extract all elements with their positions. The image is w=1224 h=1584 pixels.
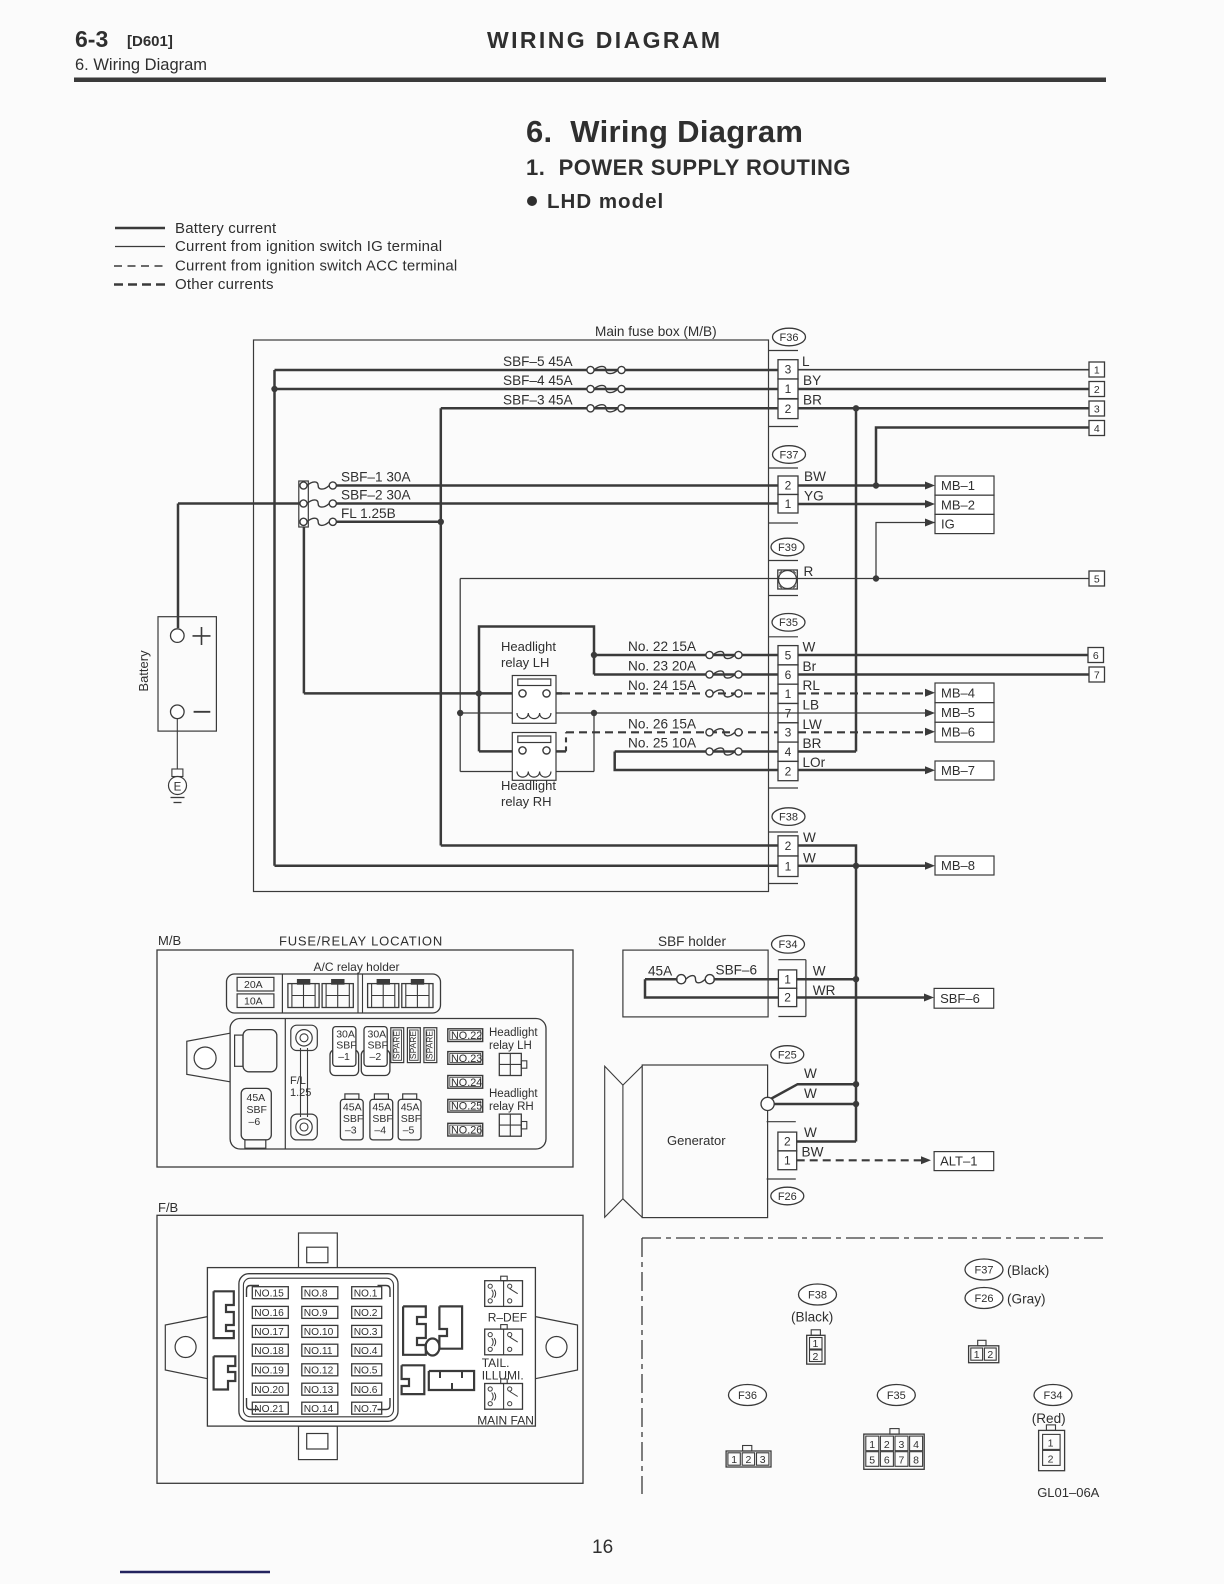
- svg-text:–2: –2: [370, 1051, 382, 1063]
- svg-text:4: 4: [1094, 423, 1100, 435]
- svg-text:F25: F25: [778, 1049, 797, 1061]
- svg-text:A/C relay holder: A/C relay holder: [314, 960, 400, 974]
- svg-text:SPARE: SPARE: [391, 1031, 401, 1060]
- svg-text:45A: 45A: [401, 1102, 420, 1114]
- svg-text:W: W: [803, 640, 816, 655]
- svg-text:W: W: [813, 964, 826, 979]
- svg-text:(Black): (Black): [791, 1310, 833, 1325]
- svg-text:2: 2: [784, 991, 791, 1005]
- svg-text:NO.25: NO.25: [451, 1101, 482, 1113]
- svg-text:GL01–06A: GL01–06A: [1037, 1485, 1099, 1500]
- svg-text:NO.13: NO.13: [304, 1385, 334, 1396]
- svg-text:BW: BW: [804, 469, 826, 484]
- svg-text:BR: BR: [803, 393, 822, 408]
- svg-text:W: W: [803, 851, 816, 866]
- svg-text:NO.3: NO.3: [354, 1327, 378, 1338]
- svg-text:RL: RL: [803, 678, 821, 693]
- svg-text:MAIN FAN: MAIN FAN: [477, 1414, 534, 1428]
- svg-text:NO.7: NO.7: [354, 1404, 378, 1415]
- svg-text:MB–2: MB–2: [941, 497, 975, 512]
- svg-text:SBF: SBF: [372, 1113, 392, 1125]
- svg-text:No. 25 10A: No. 25 10A: [628, 736, 697, 751]
- svg-text:SBF: SBF: [368, 1040, 388, 1052]
- svg-text:2: 2: [813, 1351, 819, 1363]
- svg-text:M/B: M/B: [158, 933, 181, 948]
- svg-text:F35: F35: [779, 617, 798, 629]
- svg-text:3: 3: [785, 363, 792, 377]
- svg-text:5: 5: [1094, 574, 1100, 586]
- svg-text:1. POWER SUPPLY ROUTING: 1. POWER SUPPLY ROUTING: [526, 155, 851, 180]
- svg-text:Headlight: Headlight: [501, 778, 556, 793]
- svg-text:MB–8: MB–8: [941, 858, 975, 873]
- svg-text:W: W: [803, 830, 816, 845]
- svg-text:IG: IG: [941, 517, 955, 532]
- svg-text:Battery: Battery: [136, 650, 151, 692]
- svg-text:W: W: [804, 1125, 817, 1140]
- svg-text:1: 1: [785, 687, 792, 701]
- svg-text:(Black): (Black): [1007, 1263, 1049, 1278]
- svg-text:LW: LW: [803, 717, 823, 732]
- svg-text:NO.24: NO.24: [451, 1077, 482, 1089]
- svg-text:F26: F26: [778, 1191, 797, 1203]
- svg-text:NO.17: NO.17: [254, 1327, 284, 1338]
- svg-text:1: 1: [785, 497, 792, 511]
- svg-text:(Red): (Red): [1032, 1411, 1066, 1426]
- svg-text:LOr: LOr: [803, 755, 826, 770]
- svg-text:No. 22 15A: No. 22 15A: [628, 639, 697, 654]
- svg-text:6. Wiring Diagram: 6. Wiring Diagram: [75, 56, 207, 74]
- svg-text:No. 23 20A: No. 23 20A: [628, 659, 697, 674]
- svg-text:NO.18: NO.18: [254, 1346, 284, 1357]
- svg-text:(Gray): (Gray): [1007, 1292, 1046, 1307]
- svg-text:NO.5: NO.5: [354, 1366, 378, 1377]
- svg-text:3: 3: [785, 726, 792, 740]
- svg-text:LB: LB: [803, 698, 820, 713]
- svg-text:FL 1.25B: FL 1.25B: [341, 506, 396, 521]
- svg-text:SBF–5 45A: SBF–5 45A: [503, 354, 573, 369]
- svg-text:6. Wiring Diagram: 6. Wiring Diagram: [526, 114, 803, 149]
- svg-text:45A: 45A: [247, 1092, 266, 1104]
- svg-text:–4: –4: [374, 1125, 386, 1137]
- svg-text:F/L: F/L: [290, 1075, 306, 1087]
- svg-text:F36: F36: [780, 332, 799, 344]
- svg-text:F39: F39: [778, 542, 797, 554]
- svg-text:2: 2: [785, 839, 792, 853]
- svg-text:W: W: [804, 1066, 817, 1081]
- svg-text:45A: 45A: [343, 1102, 362, 1114]
- svg-text:SBF–1 30A: SBF–1 30A: [341, 470, 411, 485]
- svg-text:NO.20: NO.20: [254, 1385, 284, 1396]
- svg-text:5: 5: [785, 648, 792, 662]
- svg-text:2: 2: [884, 1439, 890, 1451]
- svg-text:Other currents: Other currents: [175, 276, 274, 293]
- svg-text:F34: F34: [1044, 1390, 1063, 1402]
- svg-text:–1: –1: [338, 1051, 350, 1063]
- svg-text:MB–6: MB–6: [941, 725, 975, 740]
- svg-text:5: 5: [869, 1455, 875, 1467]
- svg-text:WR: WR: [813, 983, 836, 998]
- svg-text:4: 4: [913, 1439, 919, 1451]
- svg-text:Current from ignition switch I: Current from ignition switch IG terminal: [175, 238, 442, 255]
- svg-text:NO.11: NO.11: [304, 1346, 333, 1357]
- svg-text:E: E: [174, 782, 182, 794]
- svg-text:SBF–3 45A: SBF–3 45A: [503, 393, 573, 408]
- svg-text:NO.10: NO.10: [304, 1327, 334, 1338]
- svg-text:2: 2: [785, 402, 792, 416]
- svg-text:SBF–2 30A: SBF–2 30A: [341, 488, 411, 503]
- svg-text:SPARE: SPARE: [425, 1031, 435, 1060]
- svg-text:2: 2: [785, 478, 792, 492]
- svg-text:F38: F38: [779, 811, 798, 823]
- svg-text:W: W: [804, 1086, 817, 1101]
- svg-text:20A: 20A: [244, 979, 263, 991]
- svg-text:Br: Br: [803, 659, 817, 674]
- svg-text:LHD model: LHD model: [547, 190, 664, 213]
- svg-text:R–DEF: R–DEF: [488, 1311, 527, 1325]
- svg-text:NO.1: NO.1: [354, 1288, 378, 1299]
- svg-text:relay LH: relay LH: [489, 1040, 532, 1052]
- svg-text:Main fuse box (M/B): Main fuse box (M/B): [595, 324, 717, 339]
- svg-text:2: 2: [1094, 384, 1100, 396]
- svg-text:FUSE/RELAY LOCATION: FUSE/RELAY LOCATION: [279, 934, 443, 949]
- svg-text:16: 16: [592, 1537, 613, 1558]
- svg-text:1: 1: [869, 1439, 875, 1451]
- svg-text:NO.26: NO.26: [451, 1125, 482, 1137]
- svg-text:–6: –6: [249, 1116, 261, 1128]
- svg-text:6: 6: [1093, 650, 1099, 662]
- svg-text:1: 1: [813, 1338, 819, 1350]
- svg-text:4: 4: [785, 745, 792, 759]
- svg-text:SBF: SBF: [401, 1113, 421, 1125]
- svg-text:Battery current: Battery current: [175, 220, 277, 237]
- svg-text:NO.9: NO.9: [304, 1308, 328, 1319]
- svg-text:R: R: [804, 564, 814, 579]
- svg-text:F37: F37: [975, 1264, 994, 1276]
- svg-text:BR: BR: [803, 736, 822, 751]
- svg-text:MB–1: MB–1: [941, 478, 975, 493]
- svg-text:7: 7: [1094, 670, 1100, 682]
- svg-text:MB–4: MB–4: [941, 685, 975, 700]
- svg-text:–3: –3: [345, 1125, 357, 1137]
- svg-text:2: 2: [987, 1349, 993, 1361]
- svg-text:BW: BW: [802, 1145, 824, 1160]
- svg-text:1: 1: [785, 859, 792, 873]
- svg-text:F/B: F/B: [158, 1200, 178, 1215]
- svg-text:6-3: 6-3: [75, 26, 108, 52]
- svg-text:10A: 10A: [244, 996, 263, 1008]
- svg-text:1: 1: [784, 972, 791, 986]
- svg-text:1.25: 1.25: [290, 1087, 311, 1099]
- svg-text:1: 1: [785, 382, 792, 396]
- svg-text:No. 26 15A: No. 26 15A: [628, 717, 697, 732]
- svg-text:3: 3: [760, 1454, 766, 1466]
- svg-text:MB–5: MB–5: [941, 705, 975, 720]
- svg-text:[D601]: [D601]: [127, 33, 173, 50]
- svg-text:L: L: [802, 354, 810, 369]
- svg-text:NO.12: NO.12: [304, 1366, 334, 1377]
- svg-text:6: 6: [785, 668, 792, 682]
- svg-text:SBF: SBF: [247, 1104, 267, 1116]
- svg-text:45A: 45A: [372, 1102, 391, 1114]
- svg-text:WIRING DIAGRAM: WIRING DIAGRAM: [487, 27, 722, 53]
- svg-text:–5: –5: [403, 1125, 415, 1137]
- svg-text:6: 6: [884, 1455, 890, 1467]
- svg-text:Generator: Generator: [667, 1133, 726, 1148]
- svg-text:1: 1: [1048, 1437, 1054, 1449]
- svg-text:NO.19: NO.19: [254, 1366, 284, 1377]
- svg-text:3: 3: [1094, 404, 1100, 416]
- svg-text:F34: F34: [779, 939, 798, 951]
- svg-text:NO.8: NO.8: [304, 1288, 328, 1299]
- svg-text:SBF–6: SBF–6: [940, 991, 980, 1006]
- svg-text:1: 1: [731, 1454, 737, 1466]
- svg-text:ALT–1: ALT–1: [940, 1154, 977, 1169]
- svg-text:1: 1: [784, 1154, 791, 1168]
- svg-text:2: 2: [785, 764, 792, 778]
- svg-text:relay LH: relay LH: [501, 655, 549, 670]
- svg-text:SBF: SBF: [336, 1040, 356, 1052]
- svg-text:F37: F37: [780, 449, 799, 461]
- svg-text:Current from ignition switch A: Current from ignition switch ACC termina…: [175, 258, 457, 275]
- svg-text:NO.6: NO.6: [354, 1385, 378, 1396]
- svg-text:SBF–6: SBF–6: [716, 963, 758, 978]
- svg-text:NO.2: NO.2: [354, 1308, 378, 1319]
- svg-text:NO.16: NO.16: [254, 1308, 284, 1319]
- svg-text:NO.14: NO.14: [304, 1404, 334, 1415]
- svg-text:SBF: SBF: [343, 1113, 363, 1125]
- svg-text:SPARE: SPARE: [408, 1031, 418, 1060]
- svg-text:Headlight: Headlight: [501, 639, 556, 654]
- svg-text:SBF holder: SBF holder: [658, 934, 726, 949]
- svg-text:Headlight: Headlight: [489, 1027, 538, 1039]
- svg-text:BY: BY: [803, 373, 821, 388]
- svg-text:relay RH: relay RH: [489, 1101, 534, 1113]
- svg-text:F35: F35: [887, 1390, 906, 1402]
- svg-text:2: 2: [746, 1454, 752, 1466]
- svg-text:No. 24 15A: No. 24 15A: [628, 678, 697, 693]
- svg-text:F26: F26: [975, 1293, 994, 1305]
- svg-text:relay RH: relay RH: [501, 794, 552, 809]
- svg-text:NO.4: NO.4: [354, 1346, 378, 1357]
- svg-text:NO.15: NO.15: [254, 1288, 284, 1299]
- svg-text:YG: YG: [804, 489, 824, 504]
- svg-text:2: 2: [1048, 1453, 1054, 1465]
- svg-text:SBF–4 45A: SBF–4 45A: [503, 373, 573, 388]
- svg-text:1: 1: [974, 1349, 980, 1361]
- svg-text:2: 2: [784, 1135, 791, 1149]
- svg-text:3: 3: [899, 1439, 905, 1451]
- svg-text:NO.21: NO.21: [254, 1404, 284, 1415]
- svg-text:45A: 45A: [648, 964, 673, 979]
- svg-text:ILLUMI.: ILLUMI.: [482, 1369, 524, 1383]
- svg-text:F38: F38: [808, 1289, 827, 1301]
- svg-text:Headlight: Headlight: [489, 1088, 538, 1100]
- svg-text:8: 8: [913, 1455, 919, 1467]
- svg-text:MB–7: MB–7: [941, 763, 975, 778]
- svg-text:F36: F36: [738, 1390, 757, 1402]
- svg-text:7: 7: [899, 1455, 905, 1467]
- svg-text:1: 1: [1094, 365, 1100, 377]
- svg-text:NO.23: NO.23: [451, 1053, 482, 1065]
- svg-text:NO.22: NO.22: [451, 1030, 482, 1042]
